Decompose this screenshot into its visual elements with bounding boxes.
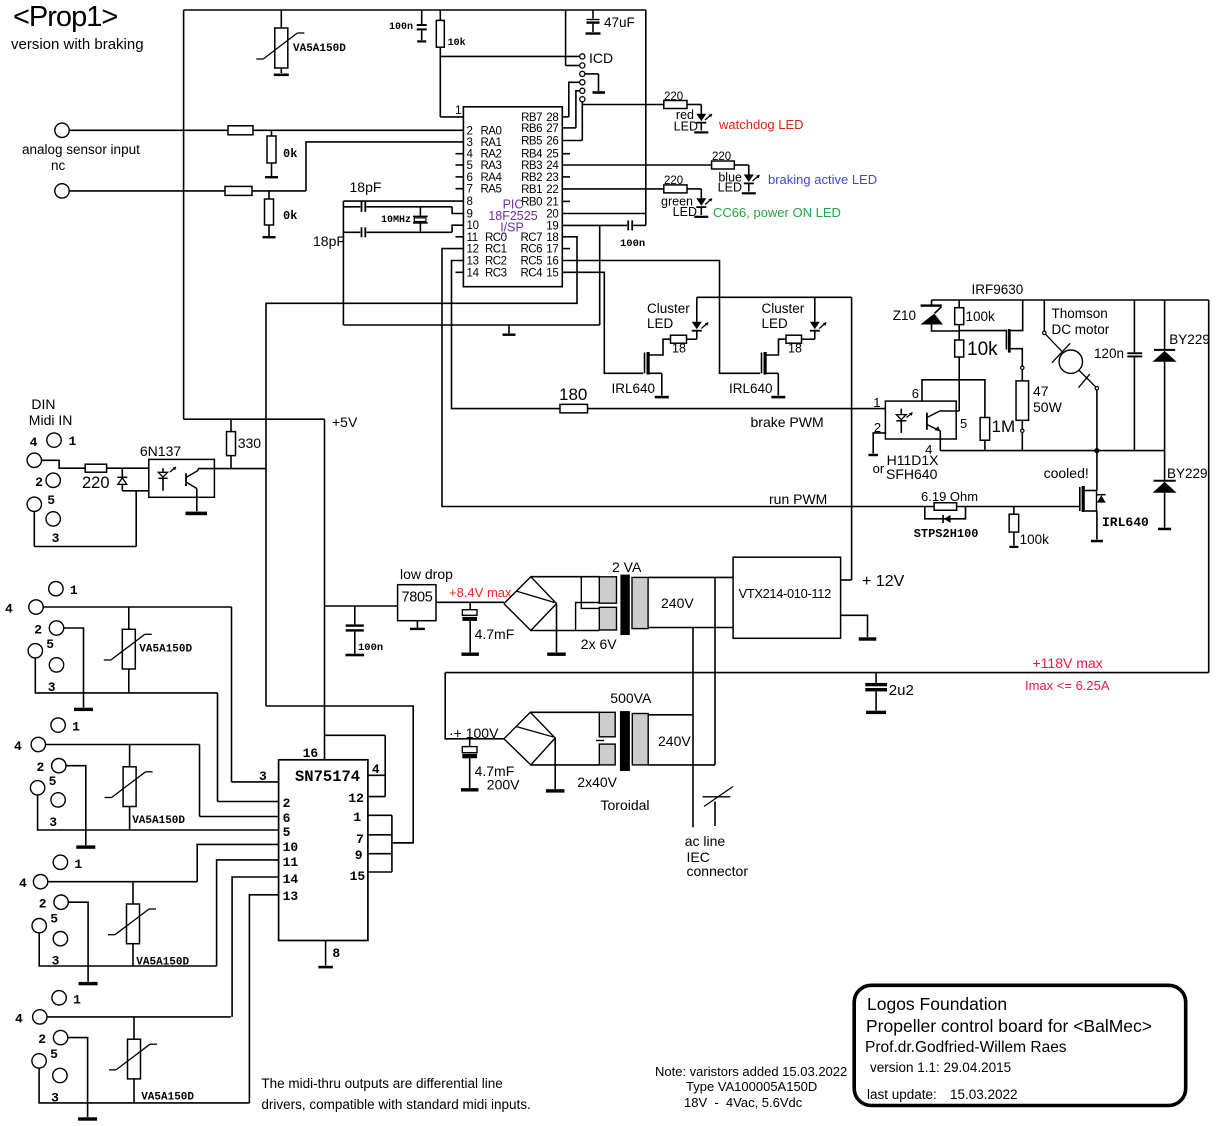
svg-text:RC4: RC4 xyxy=(520,267,543,279)
svg-text:14: 14 xyxy=(283,872,299,887)
svg-text:1: 1 xyxy=(353,810,361,825)
svg-text:4.7mF: 4.7mF xyxy=(475,626,515,642)
svg-text:SFH640: SFH640 xyxy=(886,466,938,482)
svg-text:2 VA: 2 VA xyxy=(612,559,642,575)
svg-text:120n: 120n xyxy=(1094,346,1124,361)
svg-text:cooled!: cooled! xyxy=(1044,465,1089,481)
svg-text:RB0: RB0 xyxy=(521,196,542,208)
svg-text:18pF: 18pF xyxy=(350,179,382,195)
svg-text:5: 5 xyxy=(47,493,55,508)
svg-text:10k: 10k xyxy=(967,339,998,360)
svg-text:2: 2 xyxy=(39,897,47,912)
svg-text:SN75174: SN75174 xyxy=(295,768,360,786)
svg-text:LED: LED xyxy=(718,181,742,195)
svg-text:IRL640: IRL640 xyxy=(612,381,656,396)
svg-text:LED: LED xyxy=(647,316,674,331)
svg-text:or: or xyxy=(873,461,885,476)
svg-text:brake PWM: brake PWM xyxy=(751,414,824,430)
svg-text:7: 7 xyxy=(467,184,473,196)
svg-text:RB2: RB2 xyxy=(521,172,542,184)
svg-text:25: 25 xyxy=(546,149,558,161)
svg-text:11: 11 xyxy=(283,855,299,870)
svg-text:ICD: ICD xyxy=(589,50,613,66)
svg-text:RB4: RB4 xyxy=(521,149,543,161)
svg-text:0k: 0k xyxy=(283,209,297,223)
svg-text:23: 23 xyxy=(546,172,558,184)
svg-text:19: 19 xyxy=(546,220,558,232)
svg-text:last update:: last update: xyxy=(867,1087,937,1102)
svg-text:4: 4 xyxy=(19,876,27,891)
svg-text:VA5A150D: VA5A150D xyxy=(141,1092,194,1104)
svg-text:18: 18 xyxy=(788,342,802,356)
svg-text:RC5: RC5 xyxy=(520,256,542,268)
svg-text:VTX214-010-112: VTX214-010-112 xyxy=(739,586,831,601)
svg-text:5: 5 xyxy=(50,912,58,927)
svg-text:16: 16 xyxy=(546,256,558,268)
svg-text:RB5: RB5 xyxy=(521,136,542,148)
svg-text:version with braking: version with braking xyxy=(11,36,144,53)
svg-text:CC66, power ON LED: CC66, power ON LED xyxy=(713,205,841,220)
svg-text:RA3: RA3 xyxy=(481,160,502,172)
svg-text:4: 4 xyxy=(30,435,38,450)
svg-text:+ 12V: + 12V xyxy=(862,573,905,590)
svg-text:Type VA100005A150D: Type VA100005A150D xyxy=(686,1079,817,1094)
svg-text:VA5A150D: VA5A150D xyxy=(136,957,189,969)
svg-text:VA5A150D: VA5A150D xyxy=(293,43,346,55)
svg-text:4: 4 xyxy=(14,739,22,754)
svg-text:+8.4V max: +8.4V max xyxy=(449,585,512,600)
svg-text:4: 4 xyxy=(372,762,380,777)
svg-text:RA0: RA0 xyxy=(481,125,502,137)
svg-text:IRL640: IRL640 xyxy=(729,381,773,396)
svg-text:10MHz: 10MHz xyxy=(381,215,411,226)
svg-text:240V: 240V xyxy=(661,595,694,611)
svg-text:0k: 0k xyxy=(283,147,297,161)
svg-text:12: 12 xyxy=(348,791,364,806)
svg-text:STPS2H100: STPS2H100 xyxy=(914,527,979,541)
svg-text:2u2: 2u2 xyxy=(889,682,914,699)
svg-text:240V: 240V xyxy=(658,733,691,749)
svg-text:RA2: RA2 xyxy=(481,149,502,161)
svg-text:run PWM: run PWM xyxy=(769,491,827,507)
svg-text:2: 2 xyxy=(283,796,291,811)
svg-text:2: 2 xyxy=(34,623,42,638)
svg-text:VA5A150D: VA5A150D xyxy=(132,815,185,827)
svg-text:RB1: RB1 xyxy=(521,184,542,196)
svg-text:2: 2 xyxy=(874,420,881,435)
svg-text:nc: nc xyxy=(51,158,66,173)
svg-text:9: 9 xyxy=(355,848,363,863)
svg-text:22: 22 xyxy=(546,184,558,196)
svg-text:DC motor: DC motor xyxy=(1052,322,1110,337)
svg-text:16: 16 xyxy=(303,746,319,761)
svg-text:4: 4 xyxy=(467,149,474,161)
svg-text:RC1: RC1 xyxy=(485,244,507,256)
svg-text:Toroidal: Toroidal xyxy=(601,797,650,813)
svg-text:1M: 1M xyxy=(992,417,1016,436)
svg-text:1: 1 xyxy=(70,583,78,598)
svg-text:RA4: RA4 xyxy=(481,172,503,184)
svg-text:10: 10 xyxy=(283,840,299,855)
svg-text:220: 220 xyxy=(664,91,683,103)
svg-text:5: 5 xyxy=(960,416,967,431)
svg-text:100k: 100k xyxy=(1020,532,1050,547)
svg-text:10: 10 xyxy=(467,220,479,232)
svg-text:1: 1 xyxy=(72,720,80,735)
svg-text:Prof.dr.Godfried-Willem Raes: Prof.dr.Godfried-Willem Raes xyxy=(865,1039,1067,1056)
svg-text:15.03.2022: 15.03.2022 xyxy=(950,1087,1018,1102)
svg-text:18V - 4Vac, 5.6Vdc: 18V - 4Vac, 5.6Vdc xyxy=(684,1095,803,1110)
svg-text:8: 8 xyxy=(332,946,340,961)
svg-text:7805: 7805 xyxy=(402,590,433,606)
svg-text:200V: 200V xyxy=(487,777,520,793)
svg-text:·+ 100V: ·+ 100V xyxy=(449,725,499,741)
svg-text:100n: 100n xyxy=(620,238,645,250)
svg-text:Cluster: Cluster xyxy=(762,301,805,316)
svg-text:12: 12 xyxy=(467,244,479,256)
svg-text:LED: LED xyxy=(762,316,789,331)
svg-text:RB3: RB3 xyxy=(521,160,542,172)
svg-text:LED: LED xyxy=(674,120,698,134)
svg-text:26: 26 xyxy=(546,136,558,148)
svg-text:RA5: RA5 xyxy=(481,184,502,196)
svg-text:<Prop1>: <Prop1> xyxy=(13,1,117,33)
svg-text:5: 5 xyxy=(46,637,54,652)
svg-text:Imax <= 6.25A: Imax <= 6.25A xyxy=(1025,678,1110,693)
svg-text:BY229: BY229 xyxy=(1169,332,1210,347)
svg-text:watchdog LED: watchdog LED xyxy=(718,117,804,132)
svg-text:5: 5 xyxy=(467,160,473,172)
svg-text:RC6: RC6 xyxy=(520,244,542,256)
svg-text:4: 4 xyxy=(15,1011,23,1026)
svg-text:2x40V: 2x40V xyxy=(577,774,617,790)
svg-text:50W: 50W xyxy=(1033,399,1063,415)
svg-text:RB6: RB6 xyxy=(521,123,542,135)
svg-text:Z10: Z10 xyxy=(893,308,916,323)
svg-text:4: 4 xyxy=(5,602,13,617)
svg-text:+118V max: +118V max xyxy=(1033,655,1103,671)
svg-text:14: 14 xyxy=(467,267,480,279)
svg-text:Midi IN: Midi IN xyxy=(29,412,73,428)
svg-text:2: 2 xyxy=(36,760,44,775)
svg-text:IRL640: IRL640 xyxy=(1102,515,1149,530)
svg-text:9: 9 xyxy=(467,209,473,221)
svg-text:5: 5 xyxy=(50,1047,58,1062)
svg-text:220: 220 xyxy=(82,474,110,492)
svg-text:18: 18 xyxy=(546,232,558,244)
svg-text:1: 1 xyxy=(73,992,81,1007)
svg-text:20: 20 xyxy=(546,209,558,221)
svg-text:The midi-thru outputs are diff: The midi-thru outputs are differential l… xyxy=(261,1076,502,1091)
svg-text:2: 2 xyxy=(35,475,43,490)
svg-text:connector: connector xyxy=(687,863,749,879)
svg-text:3: 3 xyxy=(49,815,57,830)
svg-text:15: 15 xyxy=(546,267,558,279)
svg-text:2x 6V: 2x 6V xyxy=(581,636,617,652)
svg-text:27: 27 xyxy=(546,123,558,135)
svg-text:6: 6 xyxy=(912,386,919,401)
svg-text:5: 5 xyxy=(49,774,57,789)
svg-text:11: 11 xyxy=(467,232,478,244)
svg-text:18: 18 xyxy=(672,342,686,356)
svg-text:I/SP: I/SP xyxy=(500,221,524,235)
svg-text:100n: 100n xyxy=(358,642,383,654)
svg-text:DIN: DIN xyxy=(31,396,55,412)
svg-text:1: 1 xyxy=(455,103,462,117)
svg-text:6: 6 xyxy=(467,172,473,184)
svg-text:220: 220 xyxy=(712,151,731,163)
svg-text:Cluster: Cluster xyxy=(647,301,690,316)
svg-text:low drop: low drop xyxy=(400,566,453,582)
svg-text:Note: varistors added 15.03.20: Note: varistors added 15.03.2022 xyxy=(655,1064,847,1079)
svg-text:500VA: 500VA xyxy=(610,690,652,706)
svg-text:version 1.1: 29.04.2015: version 1.1: 29.04.2015 xyxy=(870,1060,1011,1075)
svg-text:2: 2 xyxy=(38,1032,46,1047)
svg-text:6: 6 xyxy=(283,811,291,826)
svg-text:RA1: RA1 xyxy=(481,137,502,149)
svg-text:17: 17 xyxy=(546,244,558,256)
svg-text:analog sensor input: analog sensor input xyxy=(22,142,140,157)
svg-text:3: 3 xyxy=(467,137,473,149)
svg-text:1: 1 xyxy=(873,395,880,410)
svg-text:VA5A150D: VA5A150D xyxy=(139,644,192,656)
svg-text:braking active LED: braking active LED xyxy=(768,172,877,187)
svg-text:Thomson: Thomson xyxy=(1052,306,1108,321)
svg-text:47: 47 xyxy=(1033,383,1049,399)
svg-text:13: 13 xyxy=(467,256,479,268)
svg-text:8: 8 xyxy=(467,196,473,208)
svg-text:1: 1 xyxy=(74,857,82,872)
svg-text:24: 24 xyxy=(546,160,559,172)
svg-text:1: 1 xyxy=(69,434,77,449)
svg-text:21: 21 xyxy=(546,196,558,208)
svg-text:Logos Foundation: Logos Foundation xyxy=(867,994,1007,1014)
svg-text:5: 5 xyxy=(283,825,291,840)
svg-text:10k: 10k xyxy=(448,37,466,49)
svg-text:6.19 Ohm: 6.19 Ohm xyxy=(921,489,978,504)
svg-text:BY229: BY229 xyxy=(1167,466,1208,481)
svg-text:180: 180 xyxy=(559,385,587,404)
svg-text:2: 2 xyxy=(467,125,473,137)
svg-text:15: 15 xyxy=(350,869,366,884)
svg-text:RC2: RC2 xyxy=(485,256,507,268)
svg-text:+5V: +5V xyxy=(332,414,358,430)
svg-text:47uF: 47uF xyxy=(604,15,635,30)
svg-text:6N137: 6N137 xyxy=(140,443,181,459)
svg-text:100n: 100n xyxy=(389,22,413,33)
svg-text:ac line: ac line xyxy=(685,833,726,849)
svg-text:3: 3 xyxy=(52,531,60,546)
svg-text:7: 7 xyxy=(356,832,364,847)
svg-text:18pF: 18pF xyxy=(313,233,345,249)
svg-text:drivers, compatible with stand: drivers, compatible with standard midi i… xyxy=(261,1097,530,1112)
svg-text:330: 330 xyxy=(238,435,262,451)
svg-text:RC3: RC3 xyxy=(485,267,507,279)
svg-text:220: 220 xyxy=(664,175,683,187)
svg-text:13: 13 xyxy=(283,889,299,904)
svg-text:IRF9630: IRF9630 xyxy=(972,282,1024,297)
svg-text:100k: 100k xyxy=(966,309,996,324)
svg-text:Propeller control board for <B: Propeller control board for <BalMec> xyxy=(866,1016,1152,1036)
svg-text:LED: LED xyxy=(673,205,697,219)
